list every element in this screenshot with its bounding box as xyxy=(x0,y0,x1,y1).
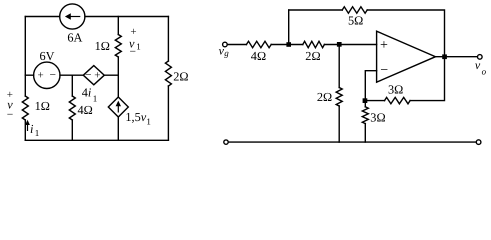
wire: feedback left vertical xyxy=(288,10,290,45)
svg-text:1: 1 xyxy=(146,116,151,126)
wire: 2ohm vertical bottom lead xyxy=(338,106,340,142)
svg-text:4Ω: 4Ω xyxy=(251,49,266,63)
svg-text:1Ω: 1Ω xyxy=(35,99,50,113)
svg-text:i: i xyxy=(30,122,34,136)
wire: 3ohm horizontal lead left xyxy=(365,100,384,102)
wire: left circuit top rail xyxy=(25,16,168,18)
svg-text:1: 1 xyxy=(35,128,40,138)
svg-text:4i: 4i xyxy=(82,86,92,100)
svg-text:5Ω: 5Ω xyxy=(348,14,363,28)
wire: inverting input L xyxy=(365,71,376,101)
svg-text:3Ω: 3Ω xyxy=(388,82,403,96)
resistor R 2ohm (right branch) xyxy=(165,61,171,86)
wire: v1 branch bottom xyxy=(117,117,119,140)
node junction (feedback left) xyxy=(286,42,291,47)
svg-text:+: + xyxy=(94,70,100,82)
wire: feedback top left segment xyxy=(289,9,343,11)
resistor R 1ohm (left branch) xyxy=(22,96,28,120)
resistor R 2ohm (vertical) xyxy=(336,88,342,107)
node junction (2ohm vertical top) xyxy=(337,42,342,47)
svg-text:3Ω: 3Ω xyxy=(370,111,385,125)
wire: 4ohm to 2ohm xyxy=(271,44,303,46)
wire: left circuit right branch bottom xyxy=(167,86,169,140)
svg-text:+: + xyxy=(380,38,388,53)
svg-text:2Ω: 2Ω xyxy=(173,69,188,83)
svg-text:6A: 6A xyxy=(67,31,82,45)
dependent source 4i1 diamond xyxy=(83,66,104,85)
terminal bottom left xyxy=(224,140,228,144)
resistor R 3ohm (horizontal) xyxy=(385,97,411,103)
node junction (inverting node) xyxy=(363,98,368,103)
node junction (output) xyxy=(442,54,447,59)
svg-text:−: − xyxy=(380,63,388,78)
voltage source 6V circle xyxy=(34,62,60,88)
wire: v1 branch middle xyxy=(117,57,119,97)
svg-text:−: − xyxy=(50,70,57,82)
svg-text:1: 1 xyxy=(93,93,98,103)
wire: 2ohm to op-amp xyxy=(324,44,376,46)
terminal vg xyxy=(223,42,228,47)
svg-text:2Ω: 2Ω xyxy=(317,90,332,104)
wire: feedback top right segment xyxy=(367,10,444,57)
wire: 4ohm branch top xyxy=(71,75,73,96)
svg-text:1,5v: 1,5v xyxy=(125,110,146,124)
i1 reference arrow xyxy=(27,123,28,131)
terminal vo xyxy=(478,55,483,60)
wire: 3ohm horizontal to output xyxy=(410,57,444,101)
svg-text:+: + xyxy=(38,70,44,82)
svg-text:v: v xyxy=(475,58,481,72)
svg-text:1: 1 xyxy=(136,42,141,52)
wire: vg to 4ohm xyxy=(227,44,246,46)
wire: 2ohm vertical top lead xyxy=(338,45,340,88)
wire: left circuit left branch xyxy=(24,17,26,97)
resistor R 1ohm (v1) xyxy=(115,35,121,58)
resistor R 3ohm (vertical) xyxy=(362,107,368,124)
terminal bottom right xyxy=(476,140,481,145)
wire: left branch bottom xyxy=(24,120,26,140)
resistor R 4ohm xyxy=(69,96,75,120)
svg-text:−: − xyxy=(130,46,137,58)
1,5v1 source arrow xyxy=(118,103,119,113)
resistor R 5ohm (feedback) xyxy=(342,7,367,13)
wire: 3ohm vertical leads xyxy=(364,101,366,143)
svg-text:−: − xyxy=(85,69,92,81)
wire: 4ohm branch bottom xyxy=(71,120,73,140)
resistor R 4ohm (input) xyxy=(246,41,271,47)
svg-text:4Ω: 4Ω xyxy=(78,103,93,117)
6A source arrow xyxy=(70,16,81,17)
wire: left circuit right branch top xyxy=(167,17,169,62)
svg-text:2Ω: 2Ω xyxy=(305,49,320,63)
wire: left circuit bottom rail xyxy=(25,139,168,141)
wire: 1ohm v1 branch top xyxy=(117,17,119,35)
wire: bottom reference rail xyxy=(228,141,476,143)
wire: middle rail left segment xyxy=(25,74,118,76)
svg-text:−: − xyxy=(7,109,14,121)
op-amp U1 triangle xyxy=(377,31,436,82)
svg-text:g: g xyxy=(224,48,229,58)
resistor R 2ohm (series) xyxy=(303,41,325,47)
wire: op-amp output xyxy=(436,56,478,58)
svg-text:1Ω: 1Ω xyxy=(95,39,110,53)
current source 6A circle xyxy=(60,4,85,29)
svg-text:6V: 6V xyxy=(40,49,55,63)
dependent source 1,5v1 diamond xyxy=(108,97,128,117)
svg-text:o: o xyxy=(482,66,487,76)
